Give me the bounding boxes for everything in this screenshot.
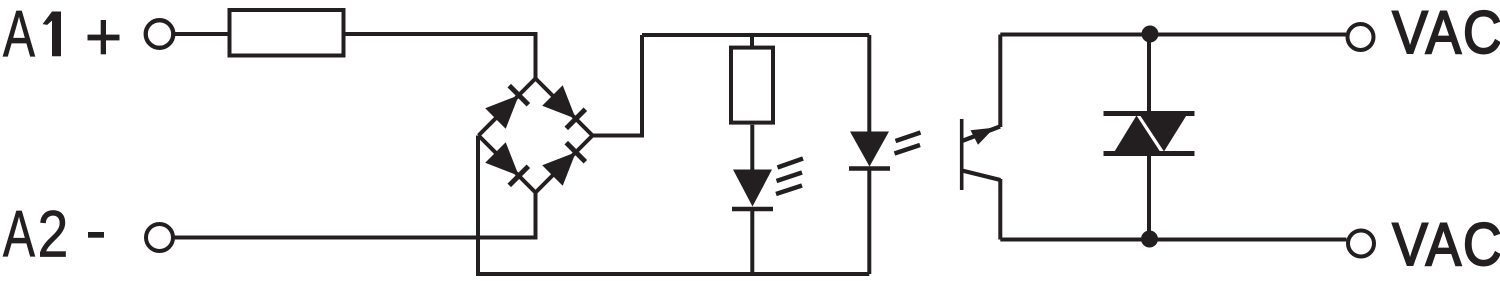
wire AC bottom rail [1000,238,1346,242]
terminal VAC bottom [1348,231,1374,257]
phototransistor Q1 base bar [960,119,964,190]
svg-text:2: 2 [37,197,68,271]
junction dot top [1142,26,1159,43]
terminal VAC top [1348,24,1374,50]
phototransistor Q1 emitter diagonal [962,171,1001,181]
svg-text:A: A [3,198,36,271]
wire DC top rail [642,33,869,37]
wire DC bottom rail [476,272,869,276]
wire R1 to bridge top [346,34,536,80]
wire LED1 to bottom rail [750,209,754,274]
LED1 status [732,159,803,210]
terminal A2 [146,224,173,251]
svg-text:A: A [3,0,36,71]
phototransistor Q1 collector diagonal with arrow [962,127,1000,145]
wire A2 to bridge bottom [174,193,536,238]
label A1 + [3,0,120,71]
wire stub rail to R2 [750,35,754,48]
label A2 - [3,197,104,271]
wire triac bottom [1147,154,1151,240]
resistor R2 [731,48,773,123]
wire Q1 emitter down [998,179,1002,240]
resistor R1 [230,10,344,56]
diode D2 (upper-left edge L to T) [479,79,536,136]
svg-text:VAC: VAC [1392,0,1500,67]
wire Q1 collector up [998,35,1002,128]
LED2 optocoupler emitter [849,132,921,169]
wire bridge left vertex down [476,136,480,275]
diode D3 (upper-right edge T to R) [536,79,593,136]
wire triac top [1147,34,1151,114]
wire A1 to R1 [174,32,230,36]
triac T1 [1104,114,1195,154]
wire R2 to LED1 [750,125,754,170]
diode D1 (lower-left edge L to B) [479,136,536,193]
svg-text:VAC: VAC [1392,211,1500,279]
wire stub rail to LED2 [867,35,871,132]
label VAC bottom [1392,211,1500,279]
diode D4 (lower-right edge B to R) [536,136,593,193]
junction dot bottom [1141,231,1158,248]
wire LED2 to bottom rail [867,169,871,275]
terminal A1 [146,20,174,48]
wire bridge right vertex to DC top rail [593,35,643,136]
label VAC top [1392,0,1500,67]
wire AC top rail [1000,33,1346,37]
